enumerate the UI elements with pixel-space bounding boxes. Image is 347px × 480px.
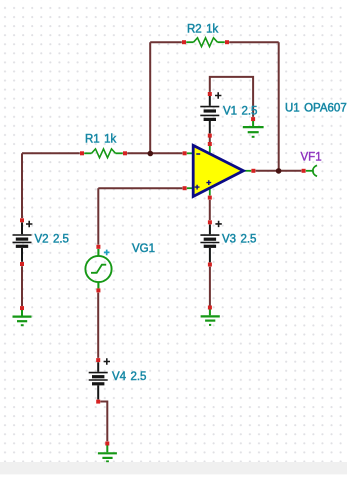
pin output [244,170,251,172]
battery V4 symbol [97,362,99,372]
wire V2 bottom to ground [21,266,23,306]
resistor R1 1k [80,134,127,158]
minus mark [196,153,200,155]
ground under V3 [201,306,220,325]
terminal top power [208,142,212,146]
terminal V4 minus (bottom) [96,400,100,404]
terminal VG1 minus (bottom) [96,288,100,292]
status bar strip [0,462,347,474]
wire output horizontal [256,170,302,172]
svg-text:R1 1k: R1 1k [85,134,116,146]
wire V3 bottom to ground [209,267,211,306]
svg-text:V2 2.5: V2 2.5 [35,234,69,246]
polarity mark + V1 [215,92,221,98]
voltage probe VF1 [301,152,322,177]
ground under V2 [13,306,32,325]
plus mark power [206,180,211,185]
wire feedback top horizontal left part [150,41,182,43]
terminal minus input [183,151,187,155]
terminal V2 minus (bottom) [20,262,24,266]
terminal plus input [183,186,187,190]
junction node at R1 / feedback [148,151,154,157]
op-amp U1 OPA607 [183,103,347,200]
resistor R1 body [84,152,91,154]
battery V4 2.5 [89,358,147,404]
svg-text:V4 2.5: V4 2.5 [112,371,146,383]
wire VG1 bottom to V4 [97,293,99,358]
resistor R2 1k [182,24,229,47]
wire feedback left vertical [149,42,151,153]
ground under V4 [98,442,117,462]
polarity mark + V2 [26,221,32,227]
plus mark input [195,185,200,190]
terminal VF1 [302,169,306,173]
wire R1 left [22,152,80,154]
svg-text:U1 OPA607: U1 OPA607 [285,103,347,115]
terminal V1 minus (bottom) [208,134,212,138]
terminal V4 plus (top) [96,358,100,362]
wire op-amp bottom power to V3 [209,200,211,220]
pin bottom power [209,187,211,195]
terminal VG1 plus (top) [96,245,100,249]
terminal V3 minus (bottom) [208,263,212,267]
pin plus input [187,187,194,189]
terminal R2 left [182,40,186,44]
battery V2 symbol [21,223,23,235]
wire R1 right to op-amp minus input [127,152,182,154]
terminal V3 plus (top) [208,220,212,224]
terminal V1 plus (top) [208,92,212,96]
polarity mark + V3 [215,221,221,227]
wire feedback right vertical [278,42,280,171]
generator VG1 symbol [97,249,99,256]
terminal V2 plus (top) [20,218,24,222]
wire V2 top vertical [21,153,23,218]
polarity mark + V4 [104,358,110,364]
svg-text:V3 2.5: V3 2.5 [222,234,256,246]
generator VG1 [85,243,155,292]
battery V3 symbol [209,225,211,235]
resistor R2 body [186,41,193,43]
wire feedback top horizontal right part [229,41,279,43]
junction node at output / feedback [276,168,282,174]
battery V2 2.5 [13,218,69,266]
wire V4 bottom jog to ground [100,402,107,442]
triangle body [193,145,243,196]
svg-text:R2 1k: R2 1k [187,24,218,36]
wire VG1 top vertical [97,188,99,244]
terminal R1 right [123,151,127,155]
ground under V1 [243,117,264,137]
terminal R2 right [225,40,229,44]
wire V1 plus to ground loop [210,77,253,117]
battery V3 2.5 [200,220,256,266]
terminal bottom power [208,196,212,200]
probe VF1 symbol [306,170,313,172]
terminal output [251,169,255,173]
wire op-amp plus input horizontal [98,187,182,189]
wire V1 bottom to op-amp top power pin [209,135,211,146]
battery V1 symbol [209,96,211,106]
svg-text:VG1: VG1 [132,243,155,255]
terminal R1 left [80,151,84,155]
pin minus input [187,152,194,154]
battery V1 2.5 [200,92,257,138]
pin top power [209,146,211,155]
svg-text:VF1: VF1 [301,152,322,164]
svg-text:V1 2.5: V1 2.5 [223,106,257,118]
polarity mark + VG1 [104,250,110,256]
